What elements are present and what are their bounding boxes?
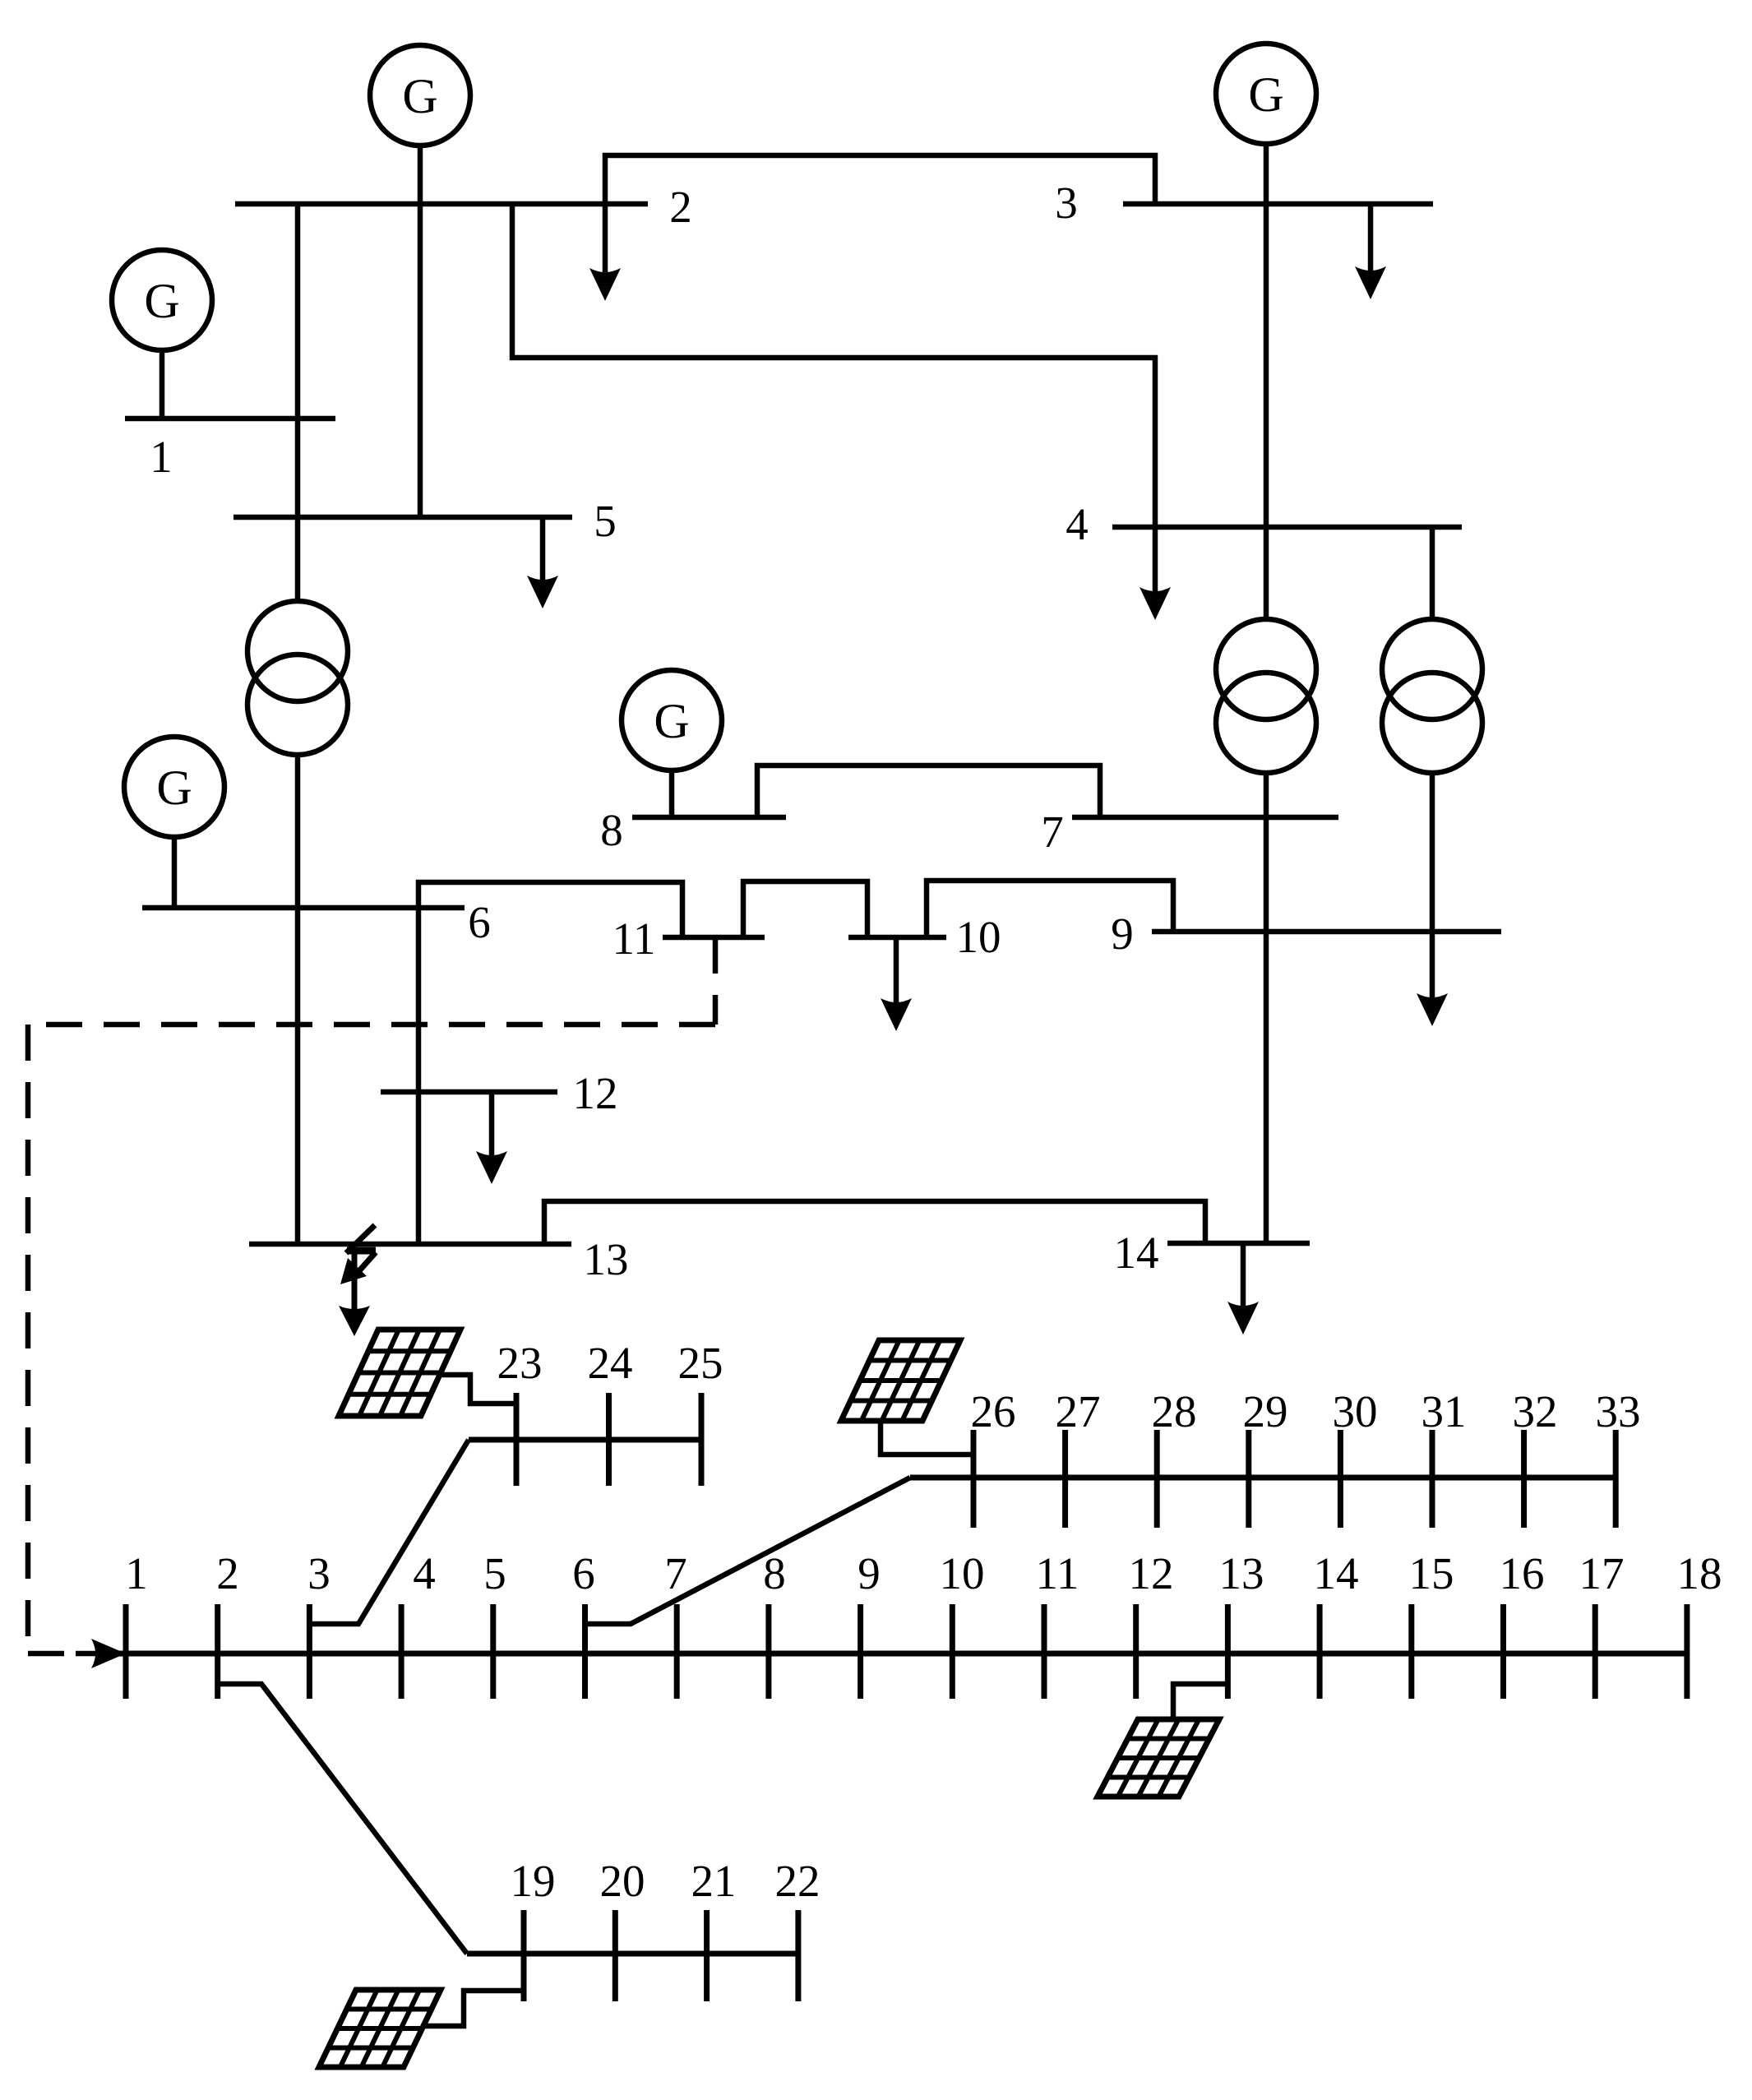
svg-text:8: 8 (600, 805, 623, 855)
svg-text:11: 11 (1036, 1548, 1079, 1598)
svg-text:22: 22 (775, 1856, 821, 1906)
svg-text:12: 12 (1129, 1548, 1174, 1598)
svg-text:G: G (1248, 67, 1283, 122)
svg-text:18: 18 (1677, 1548, 1722, 1598)
svg-text:24: 24 (588, 1338, 633, 1388)
svg-text:31: 31 (1421, 1386, 1467, 1436)
svg-text:16: 16 (1500, 1548, 1545, 1598)
svg-text:8: 8 (763, 1548, 786, 1598)
svg-text:30: 30 (1333, 1386, 1378, 1436)
svg-text:19: 19 (511, 1856, 556, 1906)
svg-text:3: 3 (1055, 178, 1078, 228)
svg-text:28: 28 (1152, 1386, 1197, 1436)
svg-text:12: 12 (573, 1068, 618, 1118)
svg-text:2: 2 (669, 182, 692, 232)
svg-text:10: 10 (940, 1548, 985, 1598)
svg-text:G: G (654, 694, 689, 748)
svg-text:6: 6 (468, 897, 491, 947)
svg-text:32: 32 (1513, 1386, 1558, 1436)
svg-text:33: 33 (1596, 1386, 1641, 1436)
svg-text:4: 4 (413, 1548, 436, 1598)
svg-text:11: 11 (613, 914, 656, 964)
svg-text:1: 1 (125, 1548, 148, 1598)
svg-text:5: 5 (483, 1548, 506, 1598)
svg-text:20: 20 (600, 1856, 645, 1906)
svg-text:1: 1 (150, 432, 173, 482)
svg-text:14: 14 (1314, 1548, 1359, 1598)
svg-text:29: 29 (1243, 1386, 1288, 1436)
svg-text:23: 23 (497, 1338, 543, 1388)
svg-text:3: 3 (307, 1548, 331, 1598)
svg-text:15: 15 (1409, 1548, 1454, 1598)
svg-text:10: 10 (956, 912, 1001, 962)
svg-text:13: 13 (584, 1234, 629, 1284)
svg-text:4: 4 (1066, 499, 1089, 549)
svg-text:26: 26 (971, 1386, 1016, 1436)
svg-text:9: 9 (858, 1548, 881, 1598)
svg-text:9: 9 (1111, 909, 1134, 959)
svg-text:G: G (144, 274, 179, 328)
svg-text:5: 5 (594, 496, 617, 546)
svg-text:25: 25 (678, 1338, 723, 1388)
svg-text:G: G (156, 761, 192, 815)
svg-text:2: 2 (216, 1548, 239, 1598)
svg-text:13: 13 (1219, 1548, 1264, 1598)
svg-text:14: 14 (1114, 1228, 1159, 1278)
svg-text:27: 27 (1056, 1386, 1101, 1436)
svg-text:G: G (402, 69, 437, 123)
svg-text:17: 17 (1579, 1548, 1625, 1598)
svg-text:21: 21 (691, 1856, 737, 1906)
svg-text:6: 6 (572, 1548, 595, 1598)
svg-text:7: 7 (664, 1548, 687, 1598)
svg-text:7: 7 (1041, 807, 1064, 857)
